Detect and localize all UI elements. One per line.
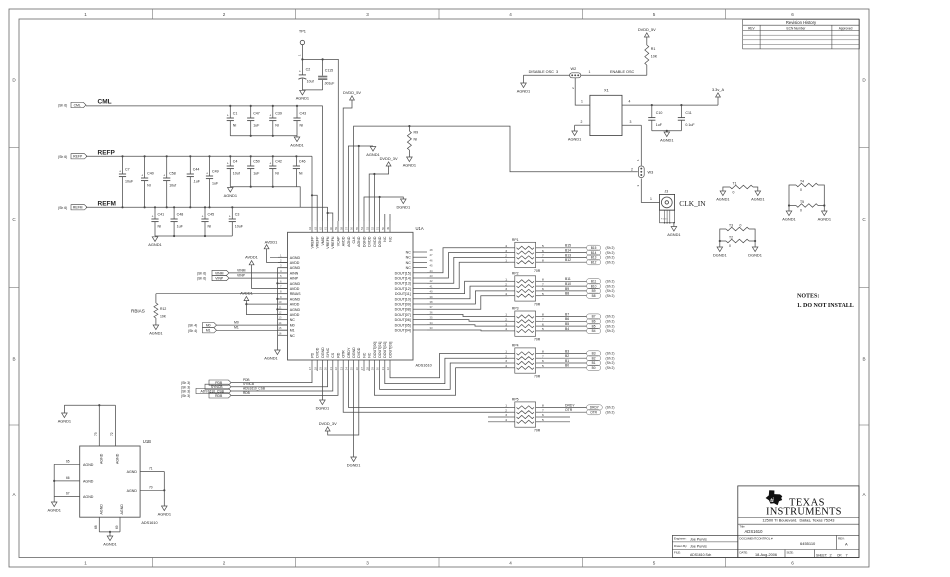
svg-text:DOUT[12]: DOUT[12]	[395, 287, 411, 291]
wire output B11	[541, 277, 587, 281]
svg-text:REFP: REFP	[73, 155, 83, 159]
svg-text:Title: Title	[740, 525, 746, 529]
svg-text:3: 3	[366, 12, 369, 17]
svg-text:RP3: RP3	[512, 307, 519, 311]
svg-text:+: +	[141, 174, 143, 178]
svg-text:CLK: CLK	[352, 236, 356, 244]
svg-text:ADS1610.Sch: ADS1610.Sch	[690, 553, 711, 557]
svg-text:0: 0	[740, 224, 742, 228]
svg-text:J3: J3	[665, 189, 669, 193]
svg-text:45: 45	[430, 264, 434, 268]
svg-text:VINP: VINP	[237, 274, 246, 278]
svg-text:8: 8	[542, 313, 544, 317]
svg-text:2: 2	[581, 120, 583, 124]
wire DOUT[10] to resistor pack	[427, 286, 509, 299]
svg-text:P G N D: P G N D	[661, 219, 668, 221]
svg-text:13: 13	[278, 316, 282, 320]
wire output B1	[541, 359, 587, 363]
net tag B5	[587, 324, 615, 329]
svg-text:5: 5	[542, 244, 544, 248]
svg-text:REFP: REFP	[98, 149, 116, 156]
ground DGND1 above U1A	[401, 199, 407, 204]
wire output B14	[541, 249, 587, 253]
resistor pack RP1	[505, 238, 544, 273]
wire output B6	[541, 317, 587, 321]
svg-text:AGND1: AGND1	[818, 216, 831, 221]
U1B right pins 71 70	[127, 467, 166, 506]
ground AGND1 under C41	[148, 237, 161, 247]
svg-text:M1: M1	[234, 326, 239, 330]
svg-text:W2: W2	[571, 67, 577, 71]
wire W2 to X1 pin1	[575, 78, 590, 105]
svg-text:55: 55	[355, 226, 359, 230]
svg-text:1uF: 1uF	[253, 172, 260, 176]
svg-text:RD: RD	[336, 352, 340, 358]
svg-text:10uF: 10uF	[235, 225, 244, 229]
svg-text:1: 1	[505, 313, 507, 317]
svg-text:C40: C40	[147, 172, 154, 176]
svg-text:REFM: REFM	[73, 206, 83, 210]
svg-text:DVDD_5V: DVDD_5V	[343, 90, 361, 95]
svg-text:VCAP: VCAP	[336, 236, 340, 246]
svg-text:+: +	[227, 162, 229, 166]
svg-text:46: 46	[430, 258, 434, 262]
svg-text:AINN: AINN	[290, 271, 299, 275]
svg-text:5: 5	[542, 292, 544, 296]
svg-text:DOUT[15]: DOUT[15]	[395, 271, 411, 275]
svg-text:7: 7	[542, 282, 544, 286]
wire VCAP from TP1	[323, 59, 339, 221]
svg-text:NC: NC	[406, 256, 412, 260]
svg-text:AGND1: AGND1	[517, 88, 530, 93]
power AVDD1 to pin 2	[264, 240, 287, 263]
svg-text:8: 8	[542, 278, 544, 282]
svg-text:B5: B5	[565, 322, 569, 326]
svg-text:NC: NC	[368, 352, 372, 358]
wire DOUT[02] to RP4	[385, 358, 509, 383]
svg-text:DOUT[13]: DOUT[13]	[395, 282, 411, 286]
svg-text:DGND: DGND	[362, 236, 366, 247]
connector J3 CLK_IN	[660, 189, 707, 226]
ground AGND1 above U1A	[370, 147, 376, 152]
svg-text:Approved: Approved	[839, 27, 853, 31]
power DVDD_3V below U1A	[319, 371, 359, 435]
svg-text:1: 1	[650, 197, 652, 201]
wire output B13	[541, 253, 587, 257]
net tag B6	[587, 319, 615, 324]
svg-text:T2: T2	[729, 236, 733, 240]
svg-text:67: 67	[66, 492, 70, 496]
net label M0	[188, 320, 288, 327]
svg-text:22: 22	[334, 367, 338, 371]
svg-text:REV: REV	[748, 27, 755, 31]
svg-text:4: 4	[505, 327, 507, 331]
svg-text:10uf: 10uf	[233, 172, 240, 176]
svg-text:B11: B11	[591, 280, 597, 284]
svg-text:DOUT[06]: DOUT[06]	[395, 318, 411, 322]
svg-text:M1: M1	[206, 329, 211, 333]
svg-text:B9: B9	[565, 287, 569, 291]
net tag B8	[587, 293, 615, 298]
resistor R9	[407, 125, 418, 157]
title block	[738, 486, 859, 558]
U1A top pins	[308, 221, 392, 249]
ground AGND1 under C10	[664, 132, 670, 137]
svg-text:1: 1	[84, 561, 87, 566]
ground AGND1 T4 right	[822, 211, 828, 216]
svg-text:32: 32	[386, 367, 390, 371]
svg-text:3: 3	[366, 561, 369, 566]
U1A left pins	[278, 253, 301, 338]
svg-text:C41: C41	[158, 213, 165, 217]
svg-text:23: 23	[339, 367, 343, 371]
svg-text:AGND1: AGND1	[366, 152, 379, 157]
wire ENABLE OSC	[581, 70, 647, 75]
svg-text:W3: W3	[648, 171, 654, 175]
svg-text:DVDD_5V: DVDD_5V	[638, 27, 656, 32]
svg-text:2: 2	[631, 168, 633, 172]
svg-text:B6: B6	[592, 320, 596, 324]
svg-text:10uf: 10uf	[169, 184, 176, 188]
wire TP1 to C2	[301, 45, 303, 60]
svg-text:AVDD1: AVDD1	[245, 255, 258, 260]
svg-text:RDB: RDB	[243, 391, 250, 395]
ground AGND1 under R12	[153, 325, 159, 330]
svg-text:70: 70	[149, 486, 153, 490]
svg-text:OTR: OTR	[590, 410, 597, 414]
svg-text:DOUT[01]: DOUT[01]	[378, 342, 382, 358]
svg-text:ENABLE OSC: ENABLE OSC	[610, 70, 635, 74]
svg-text:+: +	[227, 114, 229, 118]
svg-text:7: 7	[542, 408, 544, 412]
svg-text:18-Aug-2006: 18-Aug-2006	[755, 553, 777, 557]
svg-text:1: 1	[84, 12, 87, 17]
wire DOUT[07] to resistor pack	[427, 314, 509, 316]
svg-text:8: 8	[542, 350, 544, 354]
svg-text:40: 40	[430, 290, 434, 294]
net tag B1	[587, 360, 615, 365]
zone letters right	[862, 78, 866, 498]
svg-text:59: 59	[334, 226, 338, 230]
svg-text:73: 73	[94, 432, 98, 436]
svg-text:AGND1: AGND1	[568, 136, 581, 141]
svg-text:7: 7	[542, 254, 544, 258]
wire output B10	[541, 282, 587, 286]
svg-text:NC: NC	[406, 261, 412, 265]
wire DGND pin25 down	[353, 371, 355, 457]
capacitor C48	[171, 206, 184, 236]
svg-text:4: 4	[629, 100, 631, 104]
ground AGND1 left rail	[264, 350, 280, 360]
power DVDD_3V above U1A	[369, 156, 398, 221]
capacitor C1	[227, 105, 238, 136]
svg-text:NI: NI	[233, 124, 237, 128]
svg-text:AGND: AGND	[83, 479, 94, 483]
net tag B12	[587, 260, 615, 265]
svg-text:B14: B14	[591, 251, 597, 255]
svg-text:CML: CML	[98, 98, 112, 105]
capacitor C43	[293, 105, 306, 136]
svg-text:M1: M1	[290, 329, 295, 333]
svg-text:2: 2	[505, 408, 507, 412]
svg-text:(Sh 2): (Sh 2)	[606, 320, 615, 324]
svg-text:OTR: OTR	[342, 350, 346, 358]
U1A bottom pins	[308, 342, 392, 371]
svg-text:CS: CS	[331, 352, 335, 358]
wire output B0	[541, 364, 587, 368]
wire OTR to RP5	[343, 371, 508, 412]
svg-text:2: 2	[505, 318, 507, 322]
svg-text:DOUT[14]: DOUT[14]	[395, 277, 411, 281]
power DVDD_5V (analog section)	[343, 90, 361, 221]
capacitor C41	[151, 206, 164, 236]
svg-text:(Sh 6): (Sh 6)	[58, 206, 67, 210]
svg-text:(Sh 2): (Sh 2)	[606, 352, 615, 356]
svg-text:SIZE:: SIZE:	[787, 551, 794, 555]
svg-text:C1: C1	[233, 112, 238, 116]
capacitor C40	[141, 155, 154, 208]
svg-text:(Sh 2): (Sh 2)	[606, 410, 615, 414]
ground AGND1 disable osc	[521, 83, 527, 88]
svg-text:DGND1: DGND1	[347, 462, 361, 467]
wire CML cap bottom rail	[230, 135, 297, 137]
svg-text:AGND1: AGND1	[47, 507, 60, 512]
svg-text:REFM: REFM	[98, 200, 116, 207]
svg-text:50: 50	[381, 226, 385, 230]
wire X1 pin3 to W3	[622, 120, 641, 166]
net tag B13	[587, 255, 615, 260]
svg-text:INSTRUMENTS: INSTRUMENTS	[766, 507, 842, 518]
svg-text:AGND1: AGND1	[103, 541, 116, 546]
svg-text:39: 39	[430, 295, 434, 299]
svg-text:NC: NC	[362, 352, 366, 358]
svg-text:OTR: OTR	[565, 408, 573, 412]
zone numbers bottom	[84, 561, 794, 566]
svg-text:+: +	[206, 172, 208, 176]
wire X1 pin4 rail 3.3v	[622, 100, 718, 106]
svg-text:Engineer:: Engineer:	[674, 537, 687, 541]
resistor T2	[719, 236, 757, 249]
wire output B9	[541, 287, 587, 291]
resistor pack RP3	[505, 307, 544, 342]
svg-text:NC: NC	[388, 236, 392, 242]
capacitor C10	[648, 104, 663, 131]
svg-text:DOCUMENTCONTROL #: DOCUMENTCONTROL #	[740, 537, 774, 541]
svg-text:69: 69	[115, 525, 119, 529]
svg-text:38: 38	[430, 300, 434, 304]
U1B bottom pins 68 69	[94, 504, 124, 536]
wire DOUT[01] to RP4	[380, 363, 509, 389]
svg-text:52: 52	[371, 226, 375, 230]
resistor T1	[723, 182, 758, 195]
svg-text:0: 0	[800, 188, 802, 192]
svg-text:M0: M0	[206, 324, 211, 328]
svg-text:B0: B0	[592, 366, 596, 370]
svg-text:3: 3	[505, 322, 507, 326]
svg-text:C2: C2	[306, 68, 311, 72]
ground AGND1 T1 right	[755, 191, 761, 196]
wire DRDY to RP5	[348, 371, 508, 407]
svg-text:12: 12	[278, 311, 282, 315]
U1B left pins 65 66 67	[53, 460, 94, 503]
wire AGND pins join	[348, 145, 373, 221]
svg-text:5: 5	[542, 364, 544, 368]
svg-text:4: 4	[505, 418, 507, 422]
svg-text:T3: T3	[729, 224, 733, 228]
net tag DRDY	[587, 405, 615, 410]
svg-text:(Sh 2): (Sh 2)	[606, 329, 615, 333]
svg-text:ADS1610: ADS1610	[141, 521, 157, 525]
svg-text:VINM: VINM	[215, 271, 224, 275]
wire X1 pin2	[575, 120, 590, 131]
svg-text:1uF: 1uF	[253, 124, 260, 128]
svg-text:NI: NI	[275, 124, 279, 128]
ground AGND1 under C2	[296, 90, 309, 100]
svg-text:+: +	[269, 114, 271, 118]
wire DGND pin19 down	[321, 371, 323, 400]
svg-text:C115: C115	[325, 69, 333, 73]
svg-text:B12: B12	[591, 260, 597, 264]
svg-text:3: 3	[505, 287, 507, 291]
svg-text:RP5: RP5	[512, 397, 519, 401]
svg-text:2: 2	[505, 354, 507, 358]
svg-text:56: 56	[350, 226, 354, 230]
svg-text:RP1: RP1	[512, 238, 519, 242]
ground AGND1 under R9	[407, 157, 413, 162]
svg-text:4: 4	[505, 292, 507, 296]
svg-text:DISABLE OSC 3: DISABLE OSC 3	[529, 70, 559, 74]
ground AGND1 under X1 pin2	[572, 131, 578, 136]
svg-text:(Sh 2): (Sh 2)	[606, 284, 615, 288]
svg-text:(Sh 2): (Sh 2)	[606, 280, 615, 284]
TI logo	[766, 490, 842, 517]
net tag B3	[587, 351, 615, 356]
svg-text:5: 5	[542, 327, 544, 331]
svg-text:DOUT[05]: DOUT[05]	[395, 323, 411, 327]
svg-text:C10: C10	[656, 111, 663, 115]
net label VINP	[197, 274, 288, 281]
svg-text:B2: B2	[565, 354, 569, 358]
net label VINM	[197, 268, 288, 275]
svg-text:1uF: 1uF	[212, 182, 219, 186]
wire output B12	[541, 258, 587, 262]
power 3.3v_A	[712, 87, 725, 105]
svg-text:2: 2	[505, 282, 507, 286]
svg-text:U1B: U1B	[143, 439, 151, 444]
svg-text:3: 3	[505, 413, 507, 417]
wire output DRDY	[541, 403, 587, 407]
capacitor C49	[206, 155, 219, 208]
test point TP1	[298, 29, 306, 57]
net label REFP	[58, 149, 116, 159]
svg-text:B13: B13	[565, 253, 571, 257]
wire output B7	[541, 312, 587, 316]
svg-text:28: 28	[365, 367, 369, 371]
svg-text:AGND: AGND	[127, 470, 138, 474]
resistor R1	[645, 45, 658, 75]
wire AGND rail left	[270, 257, 288, 350]
svg-text:AGND: AGND	[290, 297, 301, 301]
svg-text:5: 5	[542, 418, 544, 422]
svg-text:AVDD1: AVDD1	[240, 290, 253, 295]
svg-text:Joe Purvis: Joe Purvis	[690, 537, 707, 541]
svg-text:C42: C42	[275, 160, 282, 164]
svg-text:3: 3	[505, 249, 507, 253]
wire REFM rail	[86, 207, 333, 221]
capacitor C11	[678, 104, 696, 131]
net tag B4	[587, 328, 615, 333]
svg-text:34: 34	[430, 321, 434, 325]
svg-text:(Sh 2): (Sh 2)	[606, 246, 615, 250]
svg-text:NI: NI	[275, 172, 279, 176]
U1A NC top stubs	[385, 214, 390, 221]
svg-text:NOTES:: NOTES:	[797, 294, 819, 300]
svg-text:17: 17	[308, 367, 312, 371]
svg-text:(Sh 2): (Sh 2)	[606, 406, 615, 410]
wire CLK net	[354, 126, 638, 221]
svg-text:2: 2	[223, 561, 226, 566]
svg-text:AGND: AGND	[290, 308, 301, 312]
svg-text:T5: T5	[800, 200, 804, 204]
net label CML	[58, 98, 112, 107]
U1B top pins 73 72	[64, 404, 119, 464]
svg-text:(Sh 6): (Sh 6)	[197, 271, 206, 275]
svg-text:C50: C50	[253, 160, 260, 164]
svg-text:ti: ti	[770, 497, 774, 504]
svg-text:47: 47	[430, 253, 434, 257]
svg-text:19K: 19K	[160, 315, 167, 319]
svg-text:C11: C11	[685, 111, 691, 115]
svg-text:6: 6	[542, 413, 544, 417]
svg-text:10K: 10K	[651, 55, 658, 59]
svg-text:AGND: AGND	[99, 504, 103, 515]
ground AGND1 T1 left	[720, 191, 726, 196]
svg-text:M0: M0	[234, 320, 239, 324]
power DVDD_5V osc	[638, 27, 656, 45]
svg-text:VINP: VINP	[215, 277, 224, 281]
svg-text:4: 4	[505, 364, 507, 368]
wire DOUT[14] to resistor pack	[427, 253, 509, 278]
svg-text:2: 2	[505, 254, 507, 258]
svg-text:30: 30	[376, 367, 380, 371]
wire output B4	[541, 327, 587, 331]
svg-text:0.1uF: 0.1uF	[685, 123, 695, 127]
svg-text:C7: C7	[125, 168, 130, 172]
svg-text:DVDD: DVDD	[357, 347, 361, 358]
svg-text:+: +	[229, 215, 231, 219]
svg-text:33: 33	[430, 326, 434, 330]
svg-text:M0: M0	[290, 323, 295, 327]
svg-text:4: 4	[505, 244, 507, 248]
zone letters left	[12, 78, 16, 498]
net tag B9	[587, 288, 615, 293]
svg-text:T1: T1	[733, 182, 737, 186]
wire DOUT[04] to resistor pack	[427, 329, 509, 332]
power AVDD1 to pins 10 12	[240, 290, 287, 314]
wire DGND pins join	[364, 196, 403, 221]
svg-text:NC: NC	[406, 251, 412, 255]
svg-text:AGND1: AGND1	[751, 196, 764, 201]
wire DOUT[09] to resistor pack	[427, 291, 509, 304]
svg-text:AGND1: AGND1	[158, 511, 171, 516]
svg-text:0: 0	[729, 244, 731, 248]
net tag B14	[587, 250, 615, 255]
svg-text:DRDY: DRDY	[347, 347, 351, 358]
svg-text:DVDD_3V: DVDD_3V	[380, 156, 398, 161]
svg-text:1: 1	[581, 100, 583, 104]
svg-text:B10: B10	[565, 282, 571, 286]
svg-text:3: 3	[630, 120, 632, 124]
